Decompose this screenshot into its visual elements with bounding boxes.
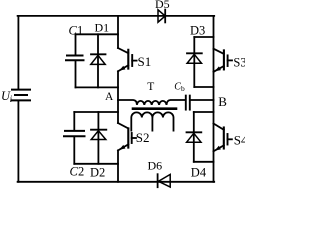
wire left rail upper segment — [17, 16, 19, 90]
svg-text:S3: S3 — [233, 55, 245, 69]
wire top rail — [18, 15, 215, 17]
wire left leg lower (S2 emitter to bottom rail) — [117, 150, 119, 181]
svg-text:S1: S1 — [138, 54, 152, 69]
node A wire and transformer primary winding — [118, 100, 185, 105]
svg-text:D6: D6 — [148, 159, 163, 173]
wire top-right cell top — [194, 36, 213, 38]
diode D3 — [187, 37, 202, 87]
wire right rail — [213, 16, 215, 182]
wire top-left cell top — [76, 33, 119, 35]
svg-text:T: T — [147, 81, 154, 93]
source Ui battery plates — [12, 90, 30, 101]
svg-text:i: i — [10, 94, 13, 104]
capacitor C1 — [66, 34, 84, 87]
wire bottom-right cell bottom — [194, 161, 214, 163]
svg-text:D5: D5 — [155, 0, 170, 11]
svg-text:D1: D1 — [95, 21, 110, 35]
transistor S1 — [118, 48, 137, 71]
wire left rail lower segment — [17, 100, 19, 181]
svg-text:B: B — [218, 94, 227, 109]
wire bottom-left cell top — [74, 111, 118, 113]
svg-text:D3: D3 — [190, 24, 205, 38]
svg-text:A: A — [105, 91, 114, 103]
svg-text:D2: D2 — [90, 166, 105, 180]
node B wire from Cb to right rail — [191, 99, 214, 101]
diode D5 on top rail — [158, 10, 165, 23]
wire bottom-right cell top — [194, 111, 214, 113]
transistor S4 — [214, 124, 232, 152]
wire top-right cell bottom — [194, 86, 213, 88]
svg-text:S4: S4 — [234, 132, 245, 147]
svg-text:1: 1 — [77, 23, 83, 37]
wire left leg upper (S1 collector from top rail) — [117, 16, 119, 48]
diode D1 — [91, 34, 106, 87]
wire bottom rail — [18, 181, 215, 183]
svg-text:2: 2 — [78, 165, 84, 179]
transistor S3 — [214, 49, 233, 72]
transformer secondary centre tap — [151, 117, 153, 130]
wire top-left cell bottom — [76, 86, 119, 88]
wire bottom-left cell bottom — [74, 163, 118, 165]
svg-text:S2: S2 — [136, 130, 150, 145]
capacitor C2 — [64, 112, 85, 164]
diode D6 on bottom rail — [158, 174, 171, 187]
diode D2 — [91, 112, 106, 164]
svg-text:b: b — [181, 84, 185, 93]
transformer T core — [133, 107, 176, 110]
transistor S2 — [118, 123, 136, 150]
svg-text:D4: D4 — [191, 166, 207, 180]
capacitor Cb plates — [186, 96, 190, 110]
transformer secondary winding — [131, 112, 173, 130]
wire left leg middle (S1 emitter to S2 collector through node A) — [117, 71, 119, 123]
diode D4 — [187, 112, 202, 162]
